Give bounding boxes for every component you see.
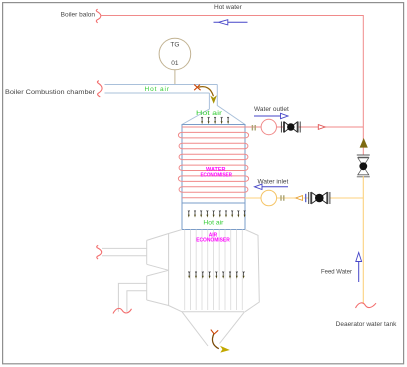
- flue duct 2 (lower left, L-shaped): [118, 270, 168, 311]
- pump P2 (inlet): [261, 190, 277, 206]
- flue duct 1 (upper left): [102, 234, 169, 271]
- flow arrow (feed water, pointing up): [356, 253, 362, 283]
- flow arrow (hot water, pointing left): [214, 20, 248, 25]
- svg-text:ECONOMISER: ECONOMISER: [196, 238, 230, 244]
- hot air flow arrows (upper hood row): [201, 117, 229, 124]
- feed water riser (yellow): [362, 176, 364, 304]
- water inlet pipe (yellow): [245, 197, 363, 199]
- curved flue-gas arrow at duct corner: [194, 85, 217, 104]
- duct break symbol (flue duct 1): [97, 245, 102, 259]
- water economiser shell: [182, 125, 245, 204]
- boiler tube bank: [185, 230, 243, 311]
- flow arrow (water outlet, pointing right): [254, 113, 288, 118]
- pipe break symbol at boiler balon: [96, 9, 101, 23]
- air economiser label: [196, 232, 230, 243]
- valve V3 (inlet): [309, 192, 330, 204]
- svg-text:Hot air: Hot air: [196, 110, 222, 117]
- hot air duct (double line): [105, 85, 218, 94]
- hot water pipe (top horizontal + right vertical): [101, 16, 364, 156]
- lower hood box: [182, 203, 245, 229]
- pipe break squiggle (deaerator): [356, 303, 377, 308]
- svg-text:Feed Water: Feed Water: [321, 269, 353, 276]
- blue tick before valve: [305, 194, 307, 202]
- pipe break squiggle (flue duct 2): [113, 308, 132, 313]
- hot air flow arrows (lower hood row): [188, 210, 246, 217]
- check direction triangle on riser: [360, 138, 368, 148]
- union ticks on outlet: [252, 125, 255, 131]
- hot air flow arrows (boiler row): [188, 272, 244, 279]
- economiser coil (serpentine): [178, 127, 248, 198]
- flow arrow on inlet pipe (pointing left): [296, 196, 303, 201]
- pump P1 (outlet): [261, 119, 276, 134]
- valve V1 (outlet): [281, 122, 300, 133]
- svg-text:01: 01: [171, 60, 179, 67]
- svg-text:Deaerator water tank: Deaerator water tank: [336, 321, 397, 328]
- valve V2 (riser, vertical): [357, 155, 370, 177]
- duct elbow down into hood: [182, 85, 245, 125]
- svg-text:Hot air: Hot air: [203, 220, 224, 227]
- flow arrow on outlet pipe: [318, 125, 325, 130]
- union ticks on inlet: [281, 195, 284, 201]
- ash hopper: [182, 312, 245, 346]
- economiser label: [200, 167, 232, 178]
- svg-text:Hot water: Hot water: [214, 4, 243, 11]
- flow arrow (water inlet, pointing left): [255, 184, 289, 189]
- svg-text:Boiler balon: Boiler balon: [61, 12, 96, 19]
- water outlet pipe: [245, 126, 363, 128]
- svg-text:Hot air: Hot air: [145, 86, 170, 93]
- svg-text:Boiler Combustion chamber: Boiler Combustion chamber: [5, 89, 96, 96]
- duct break symbol at combustion chamber: [97, 81, 102, 97]
- instrument TG-01: [159, 38, 191, 84]
- svg-text:TG: TG: [170, 42, 179, 49]
- svg-text:Water outlet: Water outlet: [254, 106, 289, 113]
- svg-text:ECONOMISER: ECONOMISER: [200, 172, 232, 178]
- ash discharge curved arrow: [211, 330, 230, 353]
- boiler shell outline: [169, 230, 260, 312]
